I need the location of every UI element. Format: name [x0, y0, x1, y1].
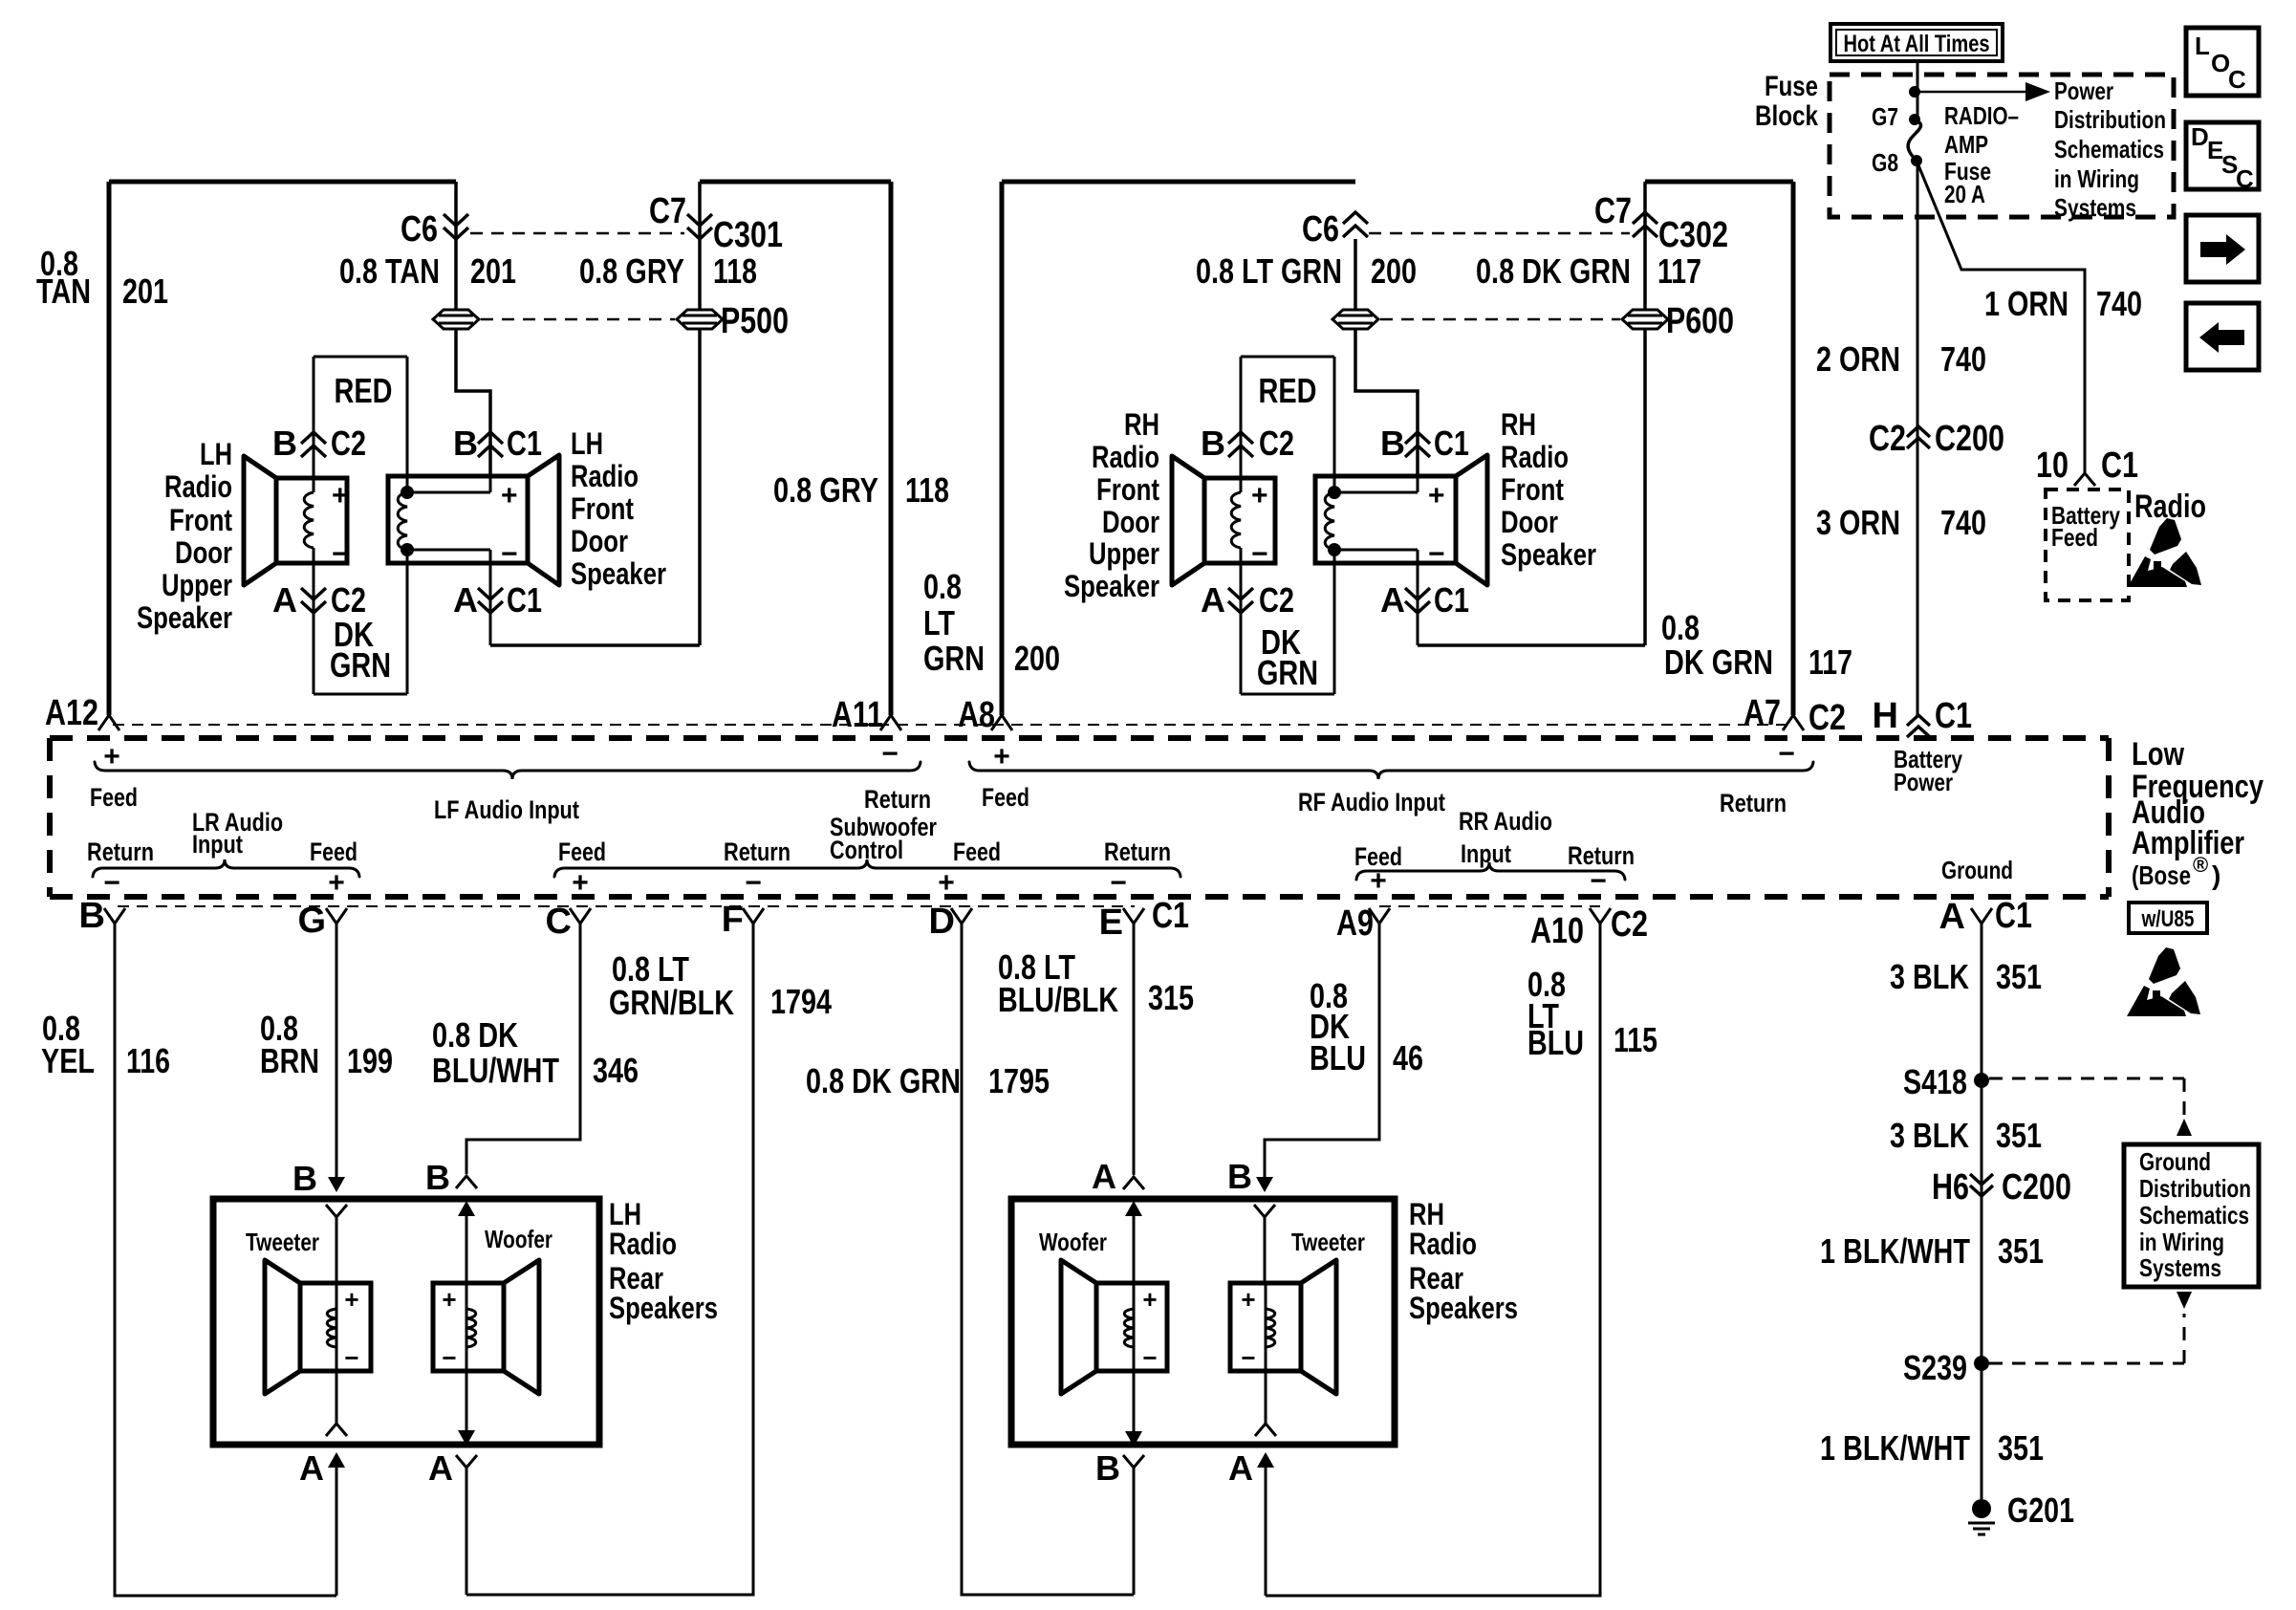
label RED (LH) [335, 371, 393, 410]
svg-text:B: B [79, 896, 105, 936]
label RADIO-AMP Fuse 20 A [1944, 101, 2019, 208]
svg-text:H: H [1873, 696, 1898, 736]
wire: 3 BLK 351 ground (pin A down) [1981, 924, 1983, 1499]
speaker LH rear woofer - horn [504, 1260, 539, 1394]
ESD symbol (radio) [2128, 518, 2201, 587]
wire: dashed P500 pass-through [481, 318, 675, 321]
wire: 1 ORN 740 branch to radio [1917, 161, 2085, 473]
label box Hot At All Times [1830, 24, 2003, 61]
svg-text:200: 200 [1371, 251, 1417, 291]
svg-text:Woofer: Woofer [485, 1225, 552, 1253]
svg-text:Speakers: Speakers [609, 1291, 718, 1325]
wire: battery feed into fuse block [1917, 63, 1919, 120]
svg-text:20 A: 20 A [1944, 180, 1985, 208]
svg-text:GRN: GRN [923, 639, 985, 678]
svg-text:B: B [1095, 1448, 1120, 1488]
svg-text:A: A [1939, 897, 1965, 937]
wire: RH section top rail [1002, 180, 1793, 185]
svg-text:C7: C7 [1594, 191, 1632, 231]
wire: RH C6 drop [1355, 239, 1418, 476]
wire: dashed P600 pass-through [1380, 318, 1620, 321]
svg-text:RADIO–: RADIO– [1944, 101, 2019, 130]
label + terminal (LH rear woofer) [442, 1285, 456, 1314]
svg-text:Front: Front [169, 503, 232, 537]
svg-text:−: − [881, 738, 899, 770]
svg-text:B: B [425, 1158, 450, 1197]
label RH Radio Rear Speakers [1409, 1197, 1518, 1325]
svg-text:Block: Block [1755, 100, 1818, 132]
node B C2 chevron (LH upper speaker) [272, 424, 366, 463]
svg-text:+: + [1370, 865, 1387, 897]
svg-text:+: + [1251, 480, 1268, 511]
label Feed (pin D) [953, 838, 1001, 866]
node H C1 battery power pin [1873, 696, 1972, 737]
node A C2 chevron (LH upper speaker) [272, 580, 366, 620]
wire: 0.8 DK BLU/WHT 346 (pin C to LH woofer B) [456, 924, 580, 1283]
svg-text:Door: Door [1102, 505, 1159, 539]
label 0.8 LT BLU/BLK 315 [998, 947, 1194, 1019]
prev-page arrow box [2186, 303, 2259, 370]
svg-text:F: F [722, 900, 744, 940]
speaker LH rear tweeter - frame [300, 1283, 371, 1371]
label 0.8 LT BLU 115 [1527, 965, 1657, 1062]
wire label box RED / DK GRN (RH) [1241, 357, 1334, 694]
node B C1 chevron (RH door speaker) [1380, 424, 1469, 463]
svg-text:−: − [1241, 1343, 1255, 1372]
brace LF audio input [95, 762, 921, 779]
svg-text:Front: Front [1096, 472, 1159, 507]
svg-text:+: + [344, 1285, 358, 1314]
wire label box RED / DK GRN (LH) [314, 357, 407, 694]
connector face dashed line (bottom C2 row) [1379, 905, 1600, 907]
svg-text:Ground: Ground [2139, 1147, 2211, 1176]
svg-text:Feed: Feed [90, 783, 138, 812]
connector face dashed line (top C1/C2 rows) [113, 724, 1793, 726]
w/U85 option box [2129, 903, 2207, 933]
svg-text:C200: C200 [1935, 419, 2004, 459]
svg-text:351: 351 [1998, 1231, 2044, 1271]
label - terminal (LH rear tweeter) [344, 1343, 358, 1372]
node A12 amp pin [45, 693, 119, 733]
svg-text:740: 740 [1940, 339, 1986, 379]
svg-text:+: + [332, 480, 349, 511]
wire: internal - lead (RH door speaker) [1334, 550, 1418, 645]
svg-text:Return: Return [1720, 789, 1787, 817]
svg-text:BRN: BRN [260, 1041, 319, 1080]
svg-text:346: 346 [593, 1051, 639, 1090]
svg-text:A11: A11 [832, 695, 883, 735]
speaker LH radio front door - horn [528, 455, 559, 585]
svg-text:Feed: Feed [953, 838, 1001, 866]
label + feed A8 [993, 741, 1010, 772]
label Radio [2134, 489, 2206, 525]
svg-text:201: 201 [122, 272, 168, 311]
node A8 amp pin [958, 695, 1012, 735]
label + terminal (RH rear tweeter) [1241, 1285, 1255, 1314]
svg-text:118: 118 [905, 470, 949, 510]
svg-text:Radio: Radio [609, 1227, 677, 1261]
node A C1 chevron (LH door speaker) [453, 580, 542, 620]
svg-text:A: A [1201, 580, 1225, 620]
label DK GRN (LH) [330, 615, 391, 685]
svg-text:Distribution: Distribution [2139, 1174, 2251, 1203]
svg-text:A10: A10 [1530, 911, 1584, 951]
label - terminal (LH upper) [332, 538, 349, 570]
svg-text:Schematics: Schematics [2054, 135, 2164, 163]
svg-text:B: B [1380, 424, 1405, 463]
svg-text:P500: P500 [721, 301, 789, 341]
label Woofer (RH) [1039, 1228, 1107, 1256]
node C301 connector chevron [687, 214, 783, 255]
svg-text:+: + [1241, 1285, 1255, 1314]
svg-text:S418: S418 [1903, 1062, 1967, 1101]
svg-text:C1: C1 [507, 424, 542, 463]
svg-text:116: 116 [126, 1041, 170, 1080]
label 1 ORN 740 [1984, 284, 2142, 323]
next-page arrow box [2186, 215, 2259, 282]
svg-text:117: 117 [1809, 642, 1852, 682]
svg-text:Radio: Radio [1409, 1227, 1477, 1261]
label RH Radio Front Door Speaker [1501, 407, 1596, 572]
speaker LH radio front door upper - frame [276, 478, 347, 563]
speaker RH radio front door - coil [1325, 492, 1334, 550]
label 2 ORN 740 [1816, 339, 1986, 379]
svg-text:w/U85: w/U85 [2141, 906, 2195, 932]
speaker RH rear tweeter - frame [1230, 1283, 1301, 1371]
svg-text:AMP: AMP [1944, 130, 1988, 159]
speaker RH radio front door - frame [1315, 476, 1456, 563]
wire: 0.8 BRN 199 (pin G to LH tweeter B) [326, 924, 347, 1283]
speaker RH rear woofer - horn [1061, 1260, 1096, 1394]
svg-text:BLU: BLU [1310, 1038, 1366, 1077]
wire: 2 ORN 740 main feed down [1917, 161, 1919, 715]
label - terminal (LH rear woofer) [442, 1343, 456, 1372]
label Battery Feed [2051, 501, 2120, 552]
LOC reference box [2186, 28, 2259, 96]
svg-text:Power: Power [1894, 768, 1953, 796]
svg-text:199: 199 [347, 1041, 393, 1080]
svg-text:Door: Door [1501, 505, 1558, 539]
svg-text:GRN: GRN [1257, 653, 1318, 692]
label - return A11 [881, 738, 899, 770]
label 1 BLK/WHT 351 (upper) [1820, 1231, 2044, 1271]
label A (LH tweeter bottom pin) [299, 1448, 324, 1488]
svg-text:0.8: 0.8 [1661, 608, 1700, 647]
svg-text:RH: RH [1124, 407, 1159, 442]
svg-text:RED: RED [335, 371, 393, 410]
node pin C [546, 902, 591, 942]
svg-text:+: + [501, 480, 518, 511]
fuse block dashed outline [1830, 75, 2174, 217]
svg-text:Speaker: Speaker [1501, 537, 1596, 572]
label Woofer (LH) [485, 1225, 552, 1253]
svg-text:1795: 1795 [988, 1061, 1050, 1100]
svg-text:C2: C2 [331, 424, 366, 463]
svg-text:BLU/BLK: BLU/BLK [998, 980, 1118, 1019]
svg-text:A: A [1380, 580, 1405, 620]
label + terminal (LH rear tweeter) [344, 1285, 358, 1314]
label RED (RH) [1259, 371, 1317, 410]
label A (LH woofer bottom pin) [428, 1448, 453, 1488]
svg-text:Fuse: Fuse [1765, 71, 1818, 102]
svg-text:LH: LH [200, 437, 232, 471]
svg-text:Ground: Ground [1941, 856, 2013, 884]
wire: C7/C302 drop 0.8 DK GRN 117 [1418, 182, 1645, 645]
svg-text:C: C [546, 902, 572, 942]
svg-text:G7: G7 [1872, 102, 1898, 131]
node pin A [1939, 896, 2032, 937]
svg-text:Feed: Feed [982, 783, 1029, 812]
brace RR audio input [1356, 862, 1625, 880]
label 0.8 GRY 118 at C301 [579, 251, 757, 291]
svg-text:G8: G8 [1872, 148, 1898, 177]
label Feed (LF +) [90, 783, 138, 812]
svg-text:−: − [1251, 538, 1268, 570]
svg-text:L: L [2195, 32, 2210, 60]
svg-text:Front: Front [571, 491, 634, 526]
svg-text:Return: Return [724, 838, 791, 866]
node B C1 chevron (LH door speaker) [453, 424, 542, 463]
wire: RH tweeter lead through box [1255, 1283, 1276, 1596]
label 0.8 GRY 118 mid [773, 470, 949, 510]
wire: LH woofer lead through box [456, 1283, 477, 1595]
label RH Radio Front Door Upper Speaker [1064, 407, 1159, 603]
svg-text:Input: Input [192, 830, 243, 859]
label + (pin C) [572, 867, 589, 899]
label - (pin A10) [1590, 865, 1607, 897]
connector P500 inline (right) [677, 301, 789, 341]
svg-text:GRN: GRN [330, 645, 391, 685]
wire: RED feed drop (LH) [314, 357, 407, 694]
wire: LH left rail 0.8 TAN 201 (to amp pin A12) [107, 182, 112, 715]
svg-text:RH: RH [1501, 407, 1536, 442]
svg-text:351: 351 [1998, 1428, 2044, 1468]
svg-text:LF Audio Input: LF Audio Input [434, 795, 579, 824]
svg-text:RED: RED [1259, 371, 1317, 410]
label Power Distribution Schematics in Wiring Systems [2054, 76, 2166, 222]
speaker RH rear tweeter - coil [1266, 1309, 1275, 1347]
svg-text:Door: Door [175, 535, 232, 570]
node S239 splice [1903, 1348, 1989, 1387]
node C6 chevron (RH) [1302, 209, 1368, 250]
svg-text:Feed: Feed [558, 838, 606, 866]
svg-text:+: + [328, 867, 345, 899]
svg-text:Radio: Radio [571, 459, 639, 493]
svg-text:1 BLK/WHT: 1 BLK/WHT [1820, 1428, 1970, 1468]
label 0.8 LT GRN 200 mid [923, 567, 1060, 678]
svg-text:Power: Power [2054, 76, 2113, 105]
svg-text:C1: C1 [1152, 896, 1189, 936]
node H6 C200 connector [1932, 1167, 2071, 1207]
svg-text:Tweeter: Tweeter [246, 1228, 319, 1256]
wire: RH left rail 0.8 LT GRN 200 (to amp pin A8) [1000, 182, 1005, 715]
wire: dashed to ground distribution (S239) [1989, 1292, 2192, 1363]
label C7 [649, 191, 686, 231]
label 0.8 DK GRN 117 mid [1661, 608, 1852, 682]
node C302 chevron [1633, 212, 1728, 255]
svg-text:Front: Front [1501, 472, 1564, 507]
svg-text:Upper: Upper [1089, 536, 1159, 571]
label Feed (RR) [1354, 842, 1402, 871]
svg-text:(Bose: (Bose [2132, 860, 2191, 890]
svg-text:Schematics: Schematics [2139, 1201, 2249, 1229]
svg-text:in Wiring: in Wiring [2054, 164, 2139, 193]
label B (LH tweeter top pin) [292, 1159, 317, 1198]
svg-text:115: 115 [1614, 1020, 1657, 1059]
label A (RH woofer top pin) [1092, 1157, 1116, 1196]
svg-text:B: B [453, 424, 478, 463]
svg-text:−: − [1142, 1343, 1157, 1372]
svg-text:DK GRN: DK GRN [1664, 642, 1773, 682]
label - (pin B) [103, 867, 120, 899]
svg-text:BLU/WHT: BLU/WHT [432, 1051, 559, 1090]
svg-text:351: 351 [1996, 1116, 2042, 1155]
label + terminal (LH door) [501, 480, 518, 511]
svg-text:C2: C2 [1259, 424, 1294, 463]
wire: RED feed drop (RH) [1241, 357, 1334, 694]
label 0.8 LT GRN/BLK 1794 [609, 949, 832, 1022]
node C6 connector chevron [401, 209, 468, 250]
label Return (RR) [1568, 841, 1635, 870]
svg-text:−: − [103, 867, 120, 899]
RH radio rear speakers box [1011, 1199, 1395, 1445]
label - return A7 [1778, 738, 1795, 770]
svg-text:Distribution: Distribution [2054, 105, 2166, 134]
svg-text:A: A [453, 580, 478, 620]
label B (LH woofer top pin) [425, 1158, 450, 1197]
junction dots (RH door speaker) [1328, 486, 1341, 556]
speaker RH rear woofer - frame [1096, 1283, 1167, 1371]
svg-text:C2: C2 [1809, 698, 1846, 738]
svg-text:Speaker: Speaker [137, 600, 232, 635]
label + (pin G) [328, 867, 345, 899]
svg-text:0.8 GRY: 0.8 GRY [773, 470, 878, 510]
label + (pin D) [938, 867, 955, 899]
wire: LH right rail 0.8 GRY 118 (to amp pin A11) [889, 182, 894, 715]
svg-text:0.8 GRY: 0.8 GRY [579, 251, 684, 291]
svg-text:Input: Input [1461, 839, 1511, 868]
ground G201 [1968, 1490, 2074, 1534]
node 10 C1 radio pin [2036, 446, 2138, 486]
svg-text:−: − [344, 1343, 358, 1372]
label G8 fuse terminal [1872, 148, 1922, 177]
svg-text:A8: A8 [958, 695, 995, 735]
svg-text:+: + [993, 741, 1010, 772]
svg-text:C2: C2 [331, 580, 366, 620]
brace subwoofer span [554, 859, 1180, 877]
speaker RH rear woofer - coil [1124, 1309, 1134, 1347]
node pin A9 [1336, 903, 1390, 944]
svg-text:Hot At All Times: Hot At All Times [1844, 31, 1990, 57]
wire: RH right rail 0.8 DK GRN 117 (to amp pin A7) [1791, 182, 1796, 715]
label B (RH woofer bottom pin) [1095, 1448, 1120, 1488]
node C2 C200 connector [1869, 419, 2004, 459]
svg-text:200: 200 [1014, 639, 1060, 678]
svg-text:+: + [1428, 480, 1445, 511]
wire: LH section top rail [109, 180, 891, 185]
svg-text:B: B [1227, 1157, 1252, 1196]
svg-text:Speaker: Speaker [571, 556, 666, 591]
svg-text:G201: G201 [2007, 1490, 2074, 1530]
svg-text:118: 118 [713, 251, 757, 291]
svg-text:A: A [272, 580, 297, 620]
label B (RH tweeter top pin) [1227, 1157, 1252, 1196]
svg-text:C1: C1 [1995, 896, 2032, 936]
label + terminal (RH upper) [1251, 480, 1268, 511]
svg-text:1 ORN: 1 ORN [1984, 284, 2069, 323]
svg-text:−: − [332, 538, 349, 570]
svg-text:S239: S239 [1903, 1348, 1967, 1387]
label - terminal (RH rear woofer) [1142, 1343, 1157, 1372]
svg-text:C7: C7 [649, 191, 686, 231]
DESC reference box [2186, 122, 2259, 193]
svg-text:A: A [428, 1448, 453, 1488]
svg-text:+: + [1142, 1285, 1157, 1314]
low frequency audio amplifier dashed box [50, 738, 2109, 897]
label Ground (amp) [1941, 856, 2013, 884]
junction node to power distribution [1909, 86, 1920, 98]
svg-text:P600: P600 [1666, 301, 1734, 341]
connector face dashed line (bottom C1 row) [118, 905, 1135, 907]
svg-text:Amplifier: Amplifier [2132, 825, 2244, 861]
wire: RH woofer lead through box [1123, 1285, 1144, 1595]
svg-text:A: A [1092, 1157, 1116, 1196]
svg-text:A: A [299, 1448, 324, 1488]
wire: dashed connector line C6-C7 (RH) [1369, 232, 1630, 235]
node S418 splice [1903, 1062, 1989, 1101]
label RR Audio Input [1459, 807, 1552, 868]
label LH Radio Front Door Upper Speaker [137, 437, 232, 635]
speaker LH radio front door upper - coil [304, 492, 314, 548]
svg-text:RR Audio: RR Audio [1459, 807, 1552, 836]
svg-text:−: − [1590, 865, 1607, 897]
svg-text:D: D [929, 902, 955, 942]
svg-text:0.8: 0.8 [923, 567, 962, 606]
svg-text:1794: 1794 [770, 982, 832, 1021]
node pin A10 [1530, 904, 1648, 951]
label 3 BLK 351 (lower) [1890, 1116, 2042, 1155]
label Return (RF -) [1720, 789, 1787, 817]
wire: internal + lead (RH door speaker) [1334, 463, 1418, 492]
label - terminal (RH upper) [1251, 538, 1268, 570]
wire: dashed to ground distribution (S418) [1989, 1078, 2192, 1136]
speaker RH radio front door - horn [1456, 455, 1487, 585]
radio battery feed dashed box [2046, 490, 2129, 600]
svg-text:Radio: Radio [1501, 440, 1569, 474]
speaker LH rear woofer - coil [466, 1309, 476, 1347]
label Feed (LR) [310, 838, 357, 866]
label RF Audio Input [1298, 788, 1445, 816]
speaker LH rear tweeter - coil [327, 1309, 336, 1347]
label Tweeter (RH) [1291, 1228, 1365, 1256]
svg-text:Return: Return [87, 838, 154, 866]
label Return Subwoofer Control [830, 785, 937, 864]
svg-text:BLU: BLU [1527, 1023, 1584, 1062]
svg-text:Return: Return [864, 785, 931, 814]
wire: 0.8 LT GRN/BLK 1794 (pin F to LH woofer A) [466, 924, 753, 1595]
label 0.8 TAN 201 at C6 [339, 251, 516, 291]
svg-text:−: − [501, 538, 518, 570]
node pin E [1099, 896, 1189, 943]
node A C1 chevron (RH door speaker) [1380, 580, 1469, 620]
connector P600 inline (right) [1622, 301, 1734, 341]
svg-text:2 ORN: 2 ORN [1816, 339, 1900, 379]
svg-text:C6: C6 [401, 209, 438, 250]
node B C2 chevron (RH upper speaker) [1201, 424, 1294, 463]
svg-text:C2: C2 [1259, 580, 1294, 620]
svg-text:Radio: Radio [164, 469, 232, 504]
svg-text:GRN/BLK: GRN/BLK [609, 983, 734, 1022]
